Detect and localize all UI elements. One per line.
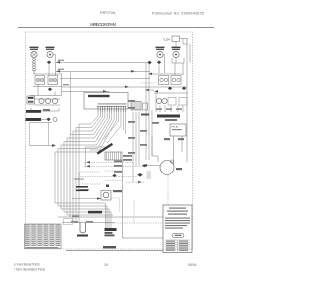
control box pin row bbox=[98, 106, 126, 112]
labels near arrows bbox=[114, 161, 122, 163]
wire with arrow y122.5 bbox=[30, 122, 52, 124]
capacitor element bbox=[78, 172, 80, 186]
diamond right of label bar 2 bbox=[46, 118, 50, 122]
top-left motor 2 bbox=[47, 51, 53, 57]
bottom element prongs bbox=[80, 223, 86, 234]
small label bbox=[43, 109, 50, 111]
sub labels under right components bbox=[156, 108, 162, 110]
long vertical to bottom right bbox=[123, 160, 164, 238]
label bar 2 bbox=[26, 118, 42, 121]
bus y71.5 bbox=[56, 71, 150, 73]
diagram border bbox=[26, 32, 193, 249]
top-left motor 1 label bbox=[30, 47, 39, 48]
diamonds below right cluster bbox=[168, 87, 172, 91]
right label line 2 bbox=[165, 119, 177, 121]
vertical under diamond bbox=[48, 122, 50, 146]
left switch cluster box 1 bbox=[35, 76, 45, 85]
top-right motor 1 bbox=[157, 51, 163, 57]
svg-text:09/04: 09/04 bbox=[188, 263, 197, 267]
left dotted verticals bbox=[69, 168, 71, 218]
svg-text:RELAY: RELAY bbox=[172, 126, 180, 129]
bus y87 bbox=[62, 86, 187, 88]
path into motor from top bbox=[152, 136, 158, 162]
connector box mid bbox=[105, 152, 122, 160]
black label on wire bbox=[88, 211, 102, 214]
pin number band bbox=[98, 103, 127, 104]
top-left motor 2 label bbox=[46, 47, 55, 48]
header rule bbox=[18, 27, 214, 29]
harness: pins fan out to left bundle, down, then bend right bbox=[55, 112, 126, 228]
diamond on dashed y176 bbox=[112, 174, 116, 178]
inner table bbox=[165, 240, 190, 252]
diamond below bbox=[137, 173, 143, 177]
motor lower right bbox=[160, 161, 174, 175]
wire from label bar 2 bbox=[41, 119, 46, 121]
svg-text:*1234: *1234 bbox=[163, 38, 170, 42]
dashed vertical from motor to notes box bbox=[167, 175, 169, 205]
lamp bbox=[101, 191, 111, 201]
notes box bbox=[163, 205, 192, 253]
connector block bottom bbox=[105, 228, 117, 231]
wires down bbox=[37, 85, 39, 96]
svg-text:* Non-Illustrated Parts: * Non-Illustrated Parts bbox=[14, 268, 46, 272]
dashed wires with arrows mid-left bbox=[80, 163, 142, 177]
cluster top wire bbox=[150, 73, 183, 75]
left inner vertical bbox=[29, 123, 31, 147]
label bar 1 bbox=[26, 110, 41, 113]
svg-text:F9F07VA: F9F07VA bbox=[100, 11, 116, 15]
long left vertical x70.8 bbox=[70, 72, 72, 135]
mid label column bbox=[128, 100, 159, 154]
wire with arrow y145.5 bbox=[30, 145, 52, 147]
svg-text:WIRING DIAGRAM: WIRING DIAGRAM bbox=[90, 22, 117, 27]
dashed into cluster bbox=[140, 82, 157, 84]
svg-text:Publication No: 5995443625: Publication No: 5995443625 bbox=[152, 12, 204, 16]
top-right small box bbox=[172, 36, 180, 42]
right edge long vertical bbox=[186, 39, 188, 163]
diamond on bus y62 bbox=[147, 61, 152, 65]
oven light circles bbox=[39, 98, 44, 103]
bracket under cluster bbox=[31, 108, 59, 111]
contact dots bbox=[37, 79, 38, 80]
wires above bottom element bbox=[58, 216, 163, 218]
coil below motor 1 bbox=[33, 58, 36, 71]
wire down from diamond bbox=[48, 65, 50, 76]
wire below cluster bbox=[33, 86, 62, 88]
top-right motor 2 label bbox=[172, 47, 181, 48]
diamond below cluster bbox=[48, 88, 52, 92]
right edge short vertical bbox=[189, 44, 191, 63]
mid vertical bundle with labels bbox=[133, 63, 183, 182]
bus y62 bbox=[56, 62, 147, 64]
short bus y91 bbox=[62, 91, 110, 93]
right switch cluster box 2 bbox=[171, 76, 181, 85]
oven light cluster label box bbox=[27, 96, 35, 104]
bus y78.5 bbox=[60, 78, 150, 80]
top-right motor 2 bbox=[173, 51, 179, 57]
wire to lamp bbox=[72, 198, 101, 200]
tiny labels near bus ends bbox=[58, 60, 64, 61]
top-right motor 1 label bbox=[156, 47, 165, 48]
small box above table right bbox=[64, 219, 73, 225]
relay terminal labels bbox=[164, 138, 170, 140]
wire top of cluster bbox=[33, 73, 62, 75]
svg-text:19: 19 bbox=[104, 263, 108, 267]
svg-text:e Functional Parts: e Functional Parts bbox=[14, 263, 40, 267]
bottom neutral wire bbox=[66, 250, 163, 252]
small boxes right bbox=[143, 103, 148, 110]
wire joining clusters bbox=[30, 95, 62, 97]
vertical left of connector box bbox=[85, 147, 87, 167]
lower right cluster circles bbox=[156, 98, 161, 103]
top-left motor 1 bbox=[31, 51, 37, 57]
labels right of connector bbox=[123, 155, 132, 157]
bracket under motor 2 bbox=[172, 58, 184, 63]
vertical comb label bbox=[147, 172, 152, 178]
right switch cluster box 1 bbox=[159, 76, 169, 85]
connector diamond under motor 2 bbox=[47, 61, 51, 65]
arrows on bus left of cluster bbox=[148, 73, 152, 76]
control box bbox=[84, 93, 128, 110]
relay box right bbox=[170, 124, 186, 136]
diamond under bbox=[157, 61, 161, 65]
right black label bar bbox=[157, 115, 180, 118]
dashed to notes box bbox=[105, 222, 163, 224]
wire right of motor 2 bbox=[53, 55, 56, 76]
diagonal label bbox=[97, 143, 113, 155]
pill bbox=[172, 234, 184, 238]
wire color table bbox=[25, 224, 62, 249]
dashed with arrow y182 bbox=[105, 180, 123, 182]
hatched connector right of control box bbox=[131, 102, 141, 111]
dashed from lamp bbox=[111, 198, 120, 212]
left arrow wire y90 bbox=[145, 89, 154, 91]
left switch cluster box 2 bbox=[48, 76, 58, 85]
